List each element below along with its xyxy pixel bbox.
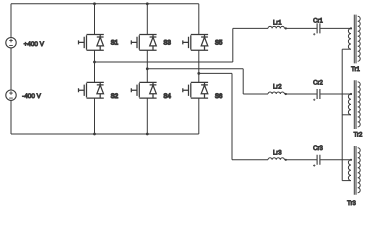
wire phase A from leg1 midpoint bbox=[95, 28, 233, 62]
svg-text:S5: S5 bbox=[215, 41, 223, 47]
node leg1 midpoint bbox=[93, 61, 96, 64]
wire leg3 drain stem bbox=[198, 4, 200, 35]
node leg3 midpoint bbox=[197, 72, 200, 75]
node top bus leg1 bbox=[93, 2, 96, 5]
node bottom bus leg1 bbox=[93, 133, 96, 136]
wire leg2 source stem bbox=[146, 98, 148, 134]
capacitor Cr1 bbox=[313, 18, 323, 35]
wire Lr1 to Cr1 bbox=[285, 27, 317, 29]
svg-text:S6: S6 bbox=[215, 94, 223, 100]
svg-text:Cr2: Cr2 bbox=[313, 80, 323, 86]
svg-text:Cr1: Cr1 bbox=[313, 18, 323, 24]
transistor S3 bbox=[131, 35, 171, 51]
svg-text:Lr2: Lr2 bbox=[273, 85, 282, 91]
wire bottom bus bbox=[11, 133, 199, 135]
svg-text:S2: S2 bbox=[111, 94, 119, 100]
wire row1 to Lr1 bbox=[233, 27, 268, 29]
svg-text:Tr3: Tr3 bbox=[347, 201, 356, 207]
node top bus leg2 bbox=[146, 2, 149, 5]
transistor S1 bbox=[79, 35, 119, 51]
transistor S4 bbox=[131, 82, 171, 100]
transformer Tr2 bbox=[348, 80, 363, 138]
wire row3 to Lr3 bbox=[232, 159, 268, 161]
transformer Tr3 bbox=[347, 146, 360, 207]
node bottom bus leg2 bbox=[146, 133, 149, 136]
inductor Lr2 bbox=[268, 85, 287, 95]
inductor Lr3 bbox=[268, 151, 287, 161]
wire leg1 mid stem bbox=[94, 50, 96, 82]
wire leg3 mid stem bbox=[198, 50, 200, 82]
node Tr2 primary top bbox=[350, 93, 352, 95]
capacitor Cr2 bbox=[313, 80, 323, 101]
svg-text:Tr1: Tr1 bbox=[351, 67, 360, 73]
wire left rail lower bbox=[10, 100, 12, 134]
wire phase C from leg3 midpoint bbox=[199, 73, 232, 159]
wire star point return Tr2 bbox=[342, 114, 351, 116]
svg-text:Tr2: Tr2 bbox=[354, 132, 363, 138]
source V1 +400 V bbox=[6, 38, 45, 48]
source V2 -400 V bbox=[6, 90, 42, 100]
wire top bus bbox=[11, 3, 199, 5]
wire leg1 drain stem bbox=[94, 4, 96, 35]
node Tr1 primary top bbox=[350, 27, 352, 29]
inductor Lr1 bbox=[268, 20, 287, 29]
svg-text:S1: S1 bbox=[111, 41, 119, 47]
wire leg2 mid stem bbox=[146, 50, 148, 82]
wire leg1 source stem bbox=[94, 98, 96, 134]
svg-text:S3: S3 bbox=[164, 41, 172, 47]
svg-text:Lr3: Lr3 bbox=[273, 151, 282, 157]
transformer Tr1 bbox=[348, 15, 360, 73]
wire left rail middle bbox=[10, 48, 12, 90]
wire Lr3 to Cr3 bbox=[285, 159, 317, 161]
node Tr3 primary top bbox=[350, 159, 352, 161]
wire row2 to Lr2 bbox=[243, 93, 268, 95]
svg-text:S4: S4 bbox=[164, 94, 172, 100]
wire left rail upper bbox=[10, 4, 12, 38]
transistor S6 bbox=[183, 82, 223, 100]
wire Cr2 to Tr2 bbox=[320, 93, 351, 95]
wire leg3 source stem bbox=[198, 98, 200, 134]
capacitor Cr3 bbox=[313, 146, 323, 167]
svg-text:Cr3: Cr3 bbox=[313, 146, 323, 152]
wire leg2 drain stem bbox=[146, 4, 148, 35]
svg-text:+400 V: +400 V bbox=[24, 41, 45, 48]
wire star point vertical bbox=[341, 49, 343, 180]
node leg2 midpoint bbox=[146, 67, 149, 70]
wire phase B from leg2 midpoint bbox=[147, 69, 243, 94]
svg-text:Lr1: Lr1 bbox=[273, 20, 282, 26]
wire star point return Tr1 bbox=[342, 48, 351, 50]
transistor S5 bbox=[183, 35, 223, 51]
wire Cr3 to Tr3 bbox=[320, 159, 351, 161]
wire Lr2 to Cr2 bbox=[285, 93, 317, 95]
wire star point return Tr3 bbox=[342, 180, 351, 182]
wire Cr1 to Tr1 bbox=[320, 27, 351, 29]
transistor S2 bbox=[79, 82, 119, 100]
svg-text:-400 V: -400 V bbox=[22, 93, 42, 100]
